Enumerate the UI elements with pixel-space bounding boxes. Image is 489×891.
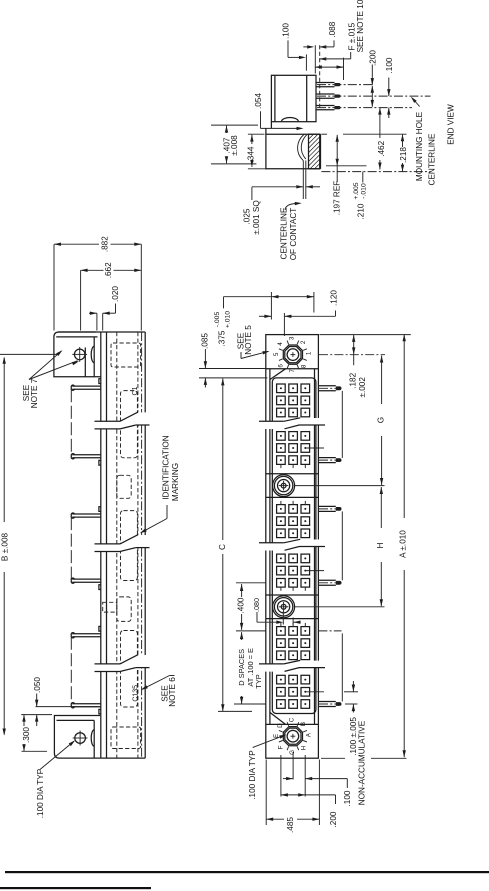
front view: .120 extension line <box>283 313 285 336</box>
side view: key 2 cam hidden outline <box>111 727 141 749</box>
svg-text:.200: .200 <box>368 50 377 66</box>
side view: ear 2 boss (half ellipse) <box>91 730 94 746</box>
svg-text:-.005: -.005 <box>214 312 221 328</box>
page footer rule (long) <box>5 871 489 873</box>
end view: hatched section block <box>309 134 320 169</box>
end view: dim F arrows (pin protrusion) <box>315 65 322 68</box>
svg-text:C: C <box>218 544 227 550</box>
side view: contact tower 2 <box>72 513 101 515</box>
end view: flange-top extension line <box>321 133 327 135</box>
svg-text:.662: .662 <box>104 262 113 278</box>
end view: body inner wall right <box>306 75 308 121</box>
svg-text:.088: .088 <box>328 21 337 37</box>
side view: .882 extension lines <box>53 244 55 330</box>
svg-text:+.005: +.005 <box>353 182 360 199</box>
svg-text:.400: .400 <box>236 597 245 613</box>
end view: dashed extension line at pin root <box>319 45 321 110</box>
front view: break line 2 (white gap) <box>259 540 325 551</box>
svg-text:±.002: ±.002 <box>358 377 367 398</box>
front view: dim G <box>380 356 383 363</box>
side view: back edge <box>144 332 146 758</box>
side view: ear 1 inner lip line <box>56 336 97 338</box>
front view: cavity bottom-left chamfer <box>270 713 286 725</box>
side view: tower 1 bottom foot notch <box>99 460 101 465</box>
end view: contact pin 2 <box>316 93 335 95</box>
end view: pin 3 centerline <box>317 107 412 109</box>
front view: key 2 section line <box>266 723 319 725</box>
svg-text:.300: .300 <box>22 727 31 743</box>
end view: dim .407 +-.008 <box>225 126 228 133</box>
side view: break line 2 (white gap) <box>95 535 150 552</box>
svg-text:NON-ACCUMULATIVE: NON-ACCUMULATIVE <box>358 720 367 805</box>
front view: contact leader lines <box>306 447 324 449</box>
side view: tower 1 top foot notch <box>99 379 101 384</box>
side view: ear 2 inner lip line <box>57 719 95 721</box>
svg-text:.197 REF: .197 REF <box>333 181 342 216</box>
svg-text:3: 3 <box>288 336 295 340</box>
svg-text:F: F <box>278 745 285 749</box>
front view: C bottom extension line <box>218 710 252 712</box>
svg-text:5: 5 <box>273 352 280 356</box>
front view: polarizing key 1 (positions 1-8) <box>283 345 302 364</box>
end view: dim .210 +.005 -.010 <box>362 172 364 183</box>
side view: dim .300 <box>23 715 25 726</box>
svg-text:IDENTIFICATION: IDENTIFICATION <box>162 435 171 500</box>
svg-text:TYP: TYP <box>254 674 263 688</box>
front view: contact pin tail 4 <box>318 579 335 581</box>
side view: mounting ear 1 outline <box>54 332 101 377</box>
side view: dim .882 <box>54 243 99 245</box>
front view: break line 1 <box>259 420 284 422</box>
svg-text:B ±.008: B ±.008 <box>0 532 9 561</box>
front view: contact pin tail 3 <box>318 505 335 507</box>
front view: dim .200 (bottom) <box>281 794 305 796</box>
side view: dim .662 <box>81 269 104 271</box>
side view: key 1 cam hidden outline <box>111 343 141 367</box>
side view: dim B +-.008 <box>3 358 5 523</box>
svg-text:B: B <box>300 722 307 726</box>
svg-text:.025: .025 <box>242 208 251 224</box>
svg-text:.100: .100 <box>281 23 290 39</box>
front view: contact pin tail 5 <box>318 701 335 703</box>
svg-text:.218: .218 <box>399 147 408 163</box>
side view: centerline (dash-dot) <box>141 332 143 758</box>
side view: jackscrew 1 hidden outline <box>117 475 131 498</box>
end view: mounting hole centerline (horizontal) <box>321 171 430 173</box>
front view: .485 extension lines <box>265 760 267 826</box>
front view: jackscrew 1 <box>273 475 295 497</box>
front view: dim C <box>222 386 224 540</box>
side view: body inner line <box>106 332 108 758</box>
svg-text:SEE NOTE 10: SEE NOTE 10 <box>356 0 365 52</box>
svg-text:CENTERLINE: CENTERLINE <box>427 133 436 185</box>
front view: key 1 centerline extended <box>319 354 385 356</box>
front view: contact cavity outline <box>272 378 316 714</box>
front view: dim A +-.010 <box>403 334 406 341</box>
side view: break line 2 <box>95 543 121 545</box>
svg-text:.344: .344 <box>246 146 255 162</box>
svg-text:C1: C1 <box>132 386 139 395</box>
side view: break line 3 <box>95 663 121 665</box>
end view: dim .197 REF <box>336 135 339 142</box>
side view: bottom edge <box>101 757 145 759</box>
svg-text:.100: .100 <box>385 57 394 73</box>
side view: hidden contact group box 1 <box>121 391 138 458</box>
svg-text:±.008: ±.008 <box>230 135 239 156</box>
svg-text:8: 8 <box>301 364 308 368</box>
svg-text:MOUNTING HOLE: MOUNTING HOLE <box>415 111 424 181</box>
svg-text:+.010: +.010 <box>225 311 232 328</box>
side view: ear 1 inner vertical <box>93 337 95 377</box>
front view: jackscrew 2 section lines <box>266 594 319 596</box>
page footer rule (short) <box>0 887 151 889</box>
front view: break line 3 (white gap) <box>259 661 325 672</box>
front view: key 1 section line <box>266 368 319 370</box>
side view: ear 1 mounting hole <box>74 349 85 360</box>
end view: dim .025 +-.001 SQ <box>252 186 296 188</box>
end view: dim .462 <box>378 108 381 115</box>
front view: body top extension line <box>320 334 411 336</box>
svg-text:.100 DIA TYP: .100 DIA TYP <box>248 750 257 800</box>
front view: body outline <box>266 335 319 759</box>
side view: ear 2 mounting hole <box>75 733 86 744</box>
svg-text:C: C <box>288 717 295 722</box>
end view: dim .344 <box>250 135 253 142</box>
svg-text:1: 1 <box>306 351 313 355</box>
svg-text:NOTE 5: NOTE 5 <box>244 325 253 355</box>
end view: keying dome at cavity bottom <box>282 118 299 121</box>
side view: hidden line (dashed) 2 <box>137 332 139 758</box>
svg-text:6: 6 <box>278 364 285 368</box>
svg-text:MARKING: MARKING <box>171 463 180 501</box>
side view: break line 1 <box>95 420 121 422</box>
svg-text:NOTE 6: NOTE 6 <box>168 677 177 707</box>
front view: break line 3 <box>259 663 284 665</box>
front view: jackscrew 2 <box>273 596 295 618</box>
front view: dim .100 (bottom) <box>283 778 293 780</box>
svg-text:A ±.010: A ±.010 <box>399 530 408 558</box>
side view: .662 extension lines <box>80 270 82 330</box>
svg-text:4: 4 <box>277 342 284 346</box>
front view: contact pin tail 2 <box>318 457 335 459</box>
end view: label MOUNTING HOLE CENTERLINE + leader <box>412 98 419 107</box>
side view: break line 1 (white gap) <box>95 412 150 429</box>
svg-text:.200: .200 <box>329 811 338 827</box>
end view: body bottom extension line <box>211 124 258 126</box>
side view: body face line <box>100 332 102 758</box>
front view: contact row tick marks beside jackscrew sections <box>280 464 282 468</box>
svg-text:2: 2 <box>300 340 307 344</box>
front view: pin tip connector line 3 <box>341 633 343 701</box>
side view: tower 2 top foot notch <box>99 507 101 512</box>
end view: dim .218 <box>401 134 404 141</box>
front view: contact pin tail 1 <box>318 385 335 387</box>
end view: contact pin 3 <box>316 105 335 107</box>
front view: body bottom extension line <box>321 757 345 759</box>
side view: tower 3 top foot notch <box>99 626 101 631</box>
svg-text:CENTERLINE: CENTERLINE <box>279 207 288 259</box>
side view: hidden contact group box 2 <box>121 511 138 581</box>
svg-text:.182: .182 <box>348 372 357 388</box>
end view: contact solder tail <box>302 161 304 200</box>
front view: jackscrew 2 centerline extended <box>294 606 385 608</box>
side view: ear 1 cam shaft edge <box>84 348 86 377</box>
end view: lower extension line <box>211 163 256 165</box>
end view: body inner wall left <box>274 75 276 121</box>
front view: hidden pin stub centerline <box>318 630 341 632</box>
end view: flange bottom ext <box>248 168 267 170</box>
front view: inner wall right <box>314 369 316 725</box>
svg-text:.375: .375 <box>218 330 227 346</box>
svg-text:H: H <box>376 542 385 548</box>
side view: hidden contact group box 3 <box>121 631 138 708</box>
side view: ear 2 (bottom) outline <box>54 716 100 759</box>
end view: mounting flange outline <box>266 128 321 168</box>
front view: dim H <box>380 487 383 494</box>
svg-text:.080: .080 <box>252 598 261 612</box>
front view: pin tip connector line 1 <box>341 391 343 458</box>
front view: jackscrew 1 section lines <box>266 473 319 475</box>
side view: mounting hole 1 centerline extended <box>0 353 57 355</box>
end view: extension line at pin tips <box>343 58 345 80</box>
front view: dim .375 -.005 +.010 <box>224 296 314 298</box>
end view: standoff lip step <box>270 122 272 129</box>
svg-text:.120: .120 <box>329 290 338 306</box>
front view: inner wall left <box>269 369 271 725</box>
side view: ear 1 boss (half ellipse) <box>91 346 94 362</box>
svg-text:.085: .085 <box>201 333 210 349</box>
side view: contact tower 3 <box>72 633 101 635</box>
side view: contact tower 1 <box>72 385 101 387</box>
svg-text:OF CONTACT: OF CONTACT <box>289 208 298 261</box>
svg-text:7: 7 <box>289 369 296 373</box>
front view: pin tip connector line 2 <box>341 511 343 580</box>
front view: dim .485 (bottom) <box>266 818 284 820</box>
side view: tower 2 bottom foot notch <box>99 585 101 590</box>
end view: label CENTERLINE OF CONTACT + leader <box>285 203 297 210</box>
svg-text:.485: .485 <box>286 817 295 833</box>
svg-text:.210: .210 <box>357 203 366 219</box>
end view: dim F +-.015 SEE NOTE 10 <box>319 57 326 60</box>
svg-text:.100 DIA TYP: .100 DIA TYP <box>36 768 45 818</box>
end view: flange top ext to .344 <box>248 133 265 135</box>
front view: .375 extension lines <box>270 292 272 320</box>
front view: dim .120 <box>259 315 271 317</box>
end view: connector body outline <box>271 75 316 121</box>
end view: curved contact inside flange <box>298 134 304 160</box>
end view: contact pin 1 <box>316 82 335 84</box>
front view: dim D SPACES AT .100 = E TYP <box>240 632 243 639</box>
side view: hidden box near jackscrew 2 <box>103 602 117 612</box>
front view: break line 2 <box>259 542 284 544</box>
end view: inner wall extension line <box>305 54 307 70</box>
svg-text:.050: .050 <box>33 677 42 693</box>
front view: polarizing key 2 (positions A-H) <box>283 727 302 746</box>
side view: jackscrew 2 hidden outline <box>117 597 131 622</box>
front view: cavity top-left chamfer <box>270 369 286 380</box>
svg-text:.462: .462 <box>377 140 386 156</box>
end view: pin 2 centerline (mounting hole centerline) <box>317 95 431 97</box>
svg-text:G: G <box>289 750 296 755</box>
svg-text:.020: .020 <box>111 286 120 302</box>
svg-text:D: D <box>277 723 284 728</box>
svg-text:H: H <box>301 745 308 750</box>
svg-text:.882: .882 <box>101 236 110 252</box>
front view: dim .100 +-.005 NON-ACCUMULATIVE <box>352 681 354 692</box>
end view: extension line at standoff face <box>326 165 367 167</box>
svg-text:.100: .100 <box>343 790 352 806</box>
svg-text:NOTE 7: NOTE 7 <box>30 378 39 408</box>
front view: dim .182 +-.002 <box>352 335 355 342</box>
svg-text:G: G <box>377 417 386 423</box>
svg-text:END VIEW: END VIEW <box>447 104 456 145</box>
front view: contact grid (3 cols x 18 rows, square contacts with center dots) <box>277 384 286 393</box>
svg-text:-.010: -.010 <box>361 183 368 199</box>
svg-text:±.001 SQ: ±.001 SQ <box>252 200 261 235</box>
end view: pin 1 centerline <box>317 84 374 86</box>
front view: bottom reference lines from key 2 <box>280 755 282 797</box>
svg-text:D SPACES: D SPACES <box>237 649 246 686</box>
side view: tower 3 bottom foot notch <box>99 709 101 714</box>
side view: top edge <box>58 331 145 333</box>
front view: dim .400 <box>240 584 243 591</box>
side view: ear 2 inner vertical <box>93 720 95 758</box>
side view: break line 3 (white gap) <box>95 655 150 672</box>
side view: hidden line (dashed) <box>116 332 118 758</box>
svg-text:.054: .054 <box>254 93 263 109</box>
front view: jackscrew 1 centerline extended <box>294 485 385 487</box>
front view: break line 1 (white gap) <box>259 418 325 429</box>
end view: mounting face extension line <box>314 45 316 73</box>
svg-text:C135: C135 <box>132 685 139 702</box>
